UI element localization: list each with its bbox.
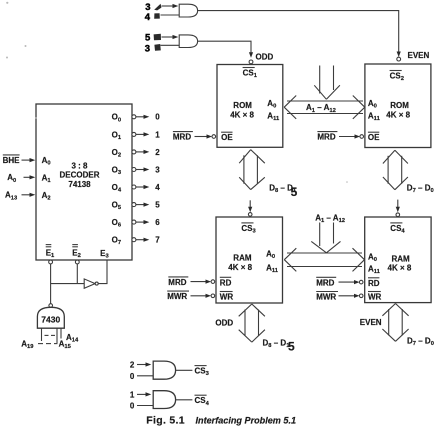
- wire G4 output: [176, 399, 193, 401]
- svg-text:4: 4: [145, 12, 151, 23]
- label 4 (G1 input, handwritten): [145, 12, 160, 23]
- wire arrow into RAM2 CS4: [396, 200, 400, 213]
- svg-text:0: 0: [130, 402, 135, 411]
- label MRD (U6): [316, 277, 336, 287]
- svg-text:4K × 8: 4K × 8: [386, 111, 410, 120]
- svg-text:7430: 7430: [41, 315, 60, 325]
- pin bubble CS2: [397, 57, 401, 61]
- label MWR (U6): [316, 292, 338, 302]
- scan specks: [6, 2, 348, 183]
- label MWR (U5): [167, 291, 189, 301]
- wire MRD arrow (U3): [195, 134, 213, 138]
- data bus D7-D0 (below RAM U6): [382, 304, 408, 342]
- svg-text:2: 2: [155, 148, 160, 157]
- label RAM 4Kx8 (U6): [388, 254, 412, 272]
- arrowhead into CS2: [397, 52, 401, 58]
- pin bubble WR (U5): [211, 294, 215, 298]
- wire O4 arrow: [136, 185, 149, 189]
- wire MWR arrow (U6): [339, 294, 360, 298]
- svg-text:RAM: RAM: [233, 254, 252, 263]
- svg-text:ODD: ODD: [215, 318, 233, 327]
- inverter U2: [84, 279, 98, 288]
- pin bubble OE (U3): [212, 135, 216, 139]
- wire O6 arrow: [136, 220, 149, 224]
- wire G1 input b: [161, 14, 180, 16]
- data bus D7-D0 (below ROM U4): [383, 150, 408, 190]
- svg-text:ODD: ODD: [256, 53, 274, 62]
- svg-text:5: 5: [155, 201, 160, 210]
- label ROM 4Kx8 (U3): [230, 101, 254, 119]
- wire address feed lines (ROM bus): [320, 66, 334, 94]
- pin label CS4: [390, 223, 405, 235]
- nand-gate 7430 output bubble: [49, 304, 53, 308]
- label MRD (U5): [168, 277, 188, 287]
- output bubble O6: [132, 220, 136, 224]
- label 5 (G2 input, handwritten): [145, 33, 161, 44]
- pin label E1 (enable): [46, 245, 55, 260]
- pin bubble E2: [75, 260, 79, 264]
- svg-text:5: 5: [288, 340, 295, 354]
- RAM U5 (ODD) box: [216, 217, 283, 303]
- and-gate G2: [179, 35, 197, 48]
- wire E2 down: [76, 264, 78, 284]
- svg-text:2: 2: [130, 361, 135, 370]
- wire O7 arrow: [136, 238, 149, 242]
- wire address feed lines (RAM bus): [320, 223, 334, 247]
- svg-text:74138: 74138: [68, 180, 91, 189]
- svg-text:MRD: MRD: [316, 278, 334, 287]
- svg-text:OE: OE: [221, 133, 233, 142]
- address bus A1-A12 (ROM row): [284, 96, 365, 119]
- svg-text:MRD: MRD: [168, 278, 186, 287]
- wire MRD arrow (U4): [339, 134, 360, 138]
- wire O5 arrow: [136, 203, 149, 207]
- svg-text:MRD: MRD: [173, 133, 191, 142]
- label CS3 (gate output): [195, 366, 210, 378]
- output bubble O2: [132, 150, 136, 154]
- svg-text:0: 0: [130, 372, 135, 381]
- and-gate G4: [153, 391, 175, 409]
- pin bubble CS1: [249, 60, 253, 64]
- wire G3 output: [176, 369, 193, 371]
- output bubble O7: [132, 238, 136, 242]
- pin label RD (U5): [220, 277, 232, 287]
- label BHE (input): [3, 155, 21, 165]
- pin bubble E1: [49, 260, 53, 264]
- wire G2 output to ODD CS1: [198, 41, 251, 53]
- dashed continuation marks (A19..A15): [38, 343, 58, 345]
- svg-text:4: 4: [155, 183, 160, 192]
- pin label CS3: [241, 223, 256, 235]
- RAM U6 (EVEN) box: [365, 217, 431, 303]
- data bus D8-D15 (below ROM U3): [239, 150, 265, 190]
- data bus D8-D15 (below RAM U5): [239, 304, 265, 342]
- ROM U4 (EVEN) box: [365, 64, 431, 148]
- svg-text:ROM: ROM: [233, 101, 252, 110]
- output bubble O5: [132, 203, 136, 207]
- svg-text:ROM: ROM: [390, 101, 409, 110]
- wire G3 input b: [137, 375, 153, 377]
- label 3 (G2 input, handwritten): [145, 43, 161, 54]
- svg-text:BHE: BHE: [3, 156, 21, 165]
- pin bubble CS3: [248, 213, 252, 217]
- svg-text:3 : 8: 3 : 8: [71, 162, 88, 171]
- wire O3 arrow: [136, 167, 149, 171]
- nand-gate 7430: [37, 307, 64, 328]
- svg-text:MWR: MWR: [316, 293, 336, 302]
- wire G2 input a with arrow: [162, 35, 179, 39]
- wire G4 input b: [137, 405, 153, 407]
- svg-text:3: 3: [145, 43, 150, 54]
- pin bubble RD (U5): [211, 280, 215, 284]
- wire inverter to E3: [98, 260, 107, 284]
- label 3:8 DECODER 74138: [59, 162, 99, 189]
- svg-text:Fig. 5.1: Fig. 5.1: [146, 414, 185, 426]
- svg-text:5: 5: [145, 33, 151, 44]
- svg-text:0: 0: [155, 113, 160, 122]
- svg-text:4K × 8: 4K × 8: [388, 264, 412, 273]
- pin label OE (U3): [221, 132, 233, 142]
- dashed continuation marks (inputs): [45, 334, 56, 336]
- svg-text:7: 7: [155, 236, 160, 245]
- output bubble O1: [132, 132, 136, 136]
- pin bubble CS4: [396, 213, 400, 217]
- wire G1 input a with arrow: [162, 4, 179, 8]
- wire arrow into RAM1 CS3: [248, 200, 252, 212]
- output bubble O3: [132, 168, 136, 172]
- label CS4 (gate output): [195, 395, 210, 407]
- label MRD (U3): [173, 132, 193, 142]
- pin bubble RD (U6): [359, 280, 363, 284]
- arrowhead V into ROM bus: [314, 85, 340, 99]
- arrowhead V into RAM bus: [311, 241, 340, 252]
- wire A13 arrow: [22, 193, 36, 197]
- wire MRD arrow (U6): [339, 280, 360, 284]
- wire G4 input a with arrow: [137, 392, 151, 396]
- address bus A1-A12 (RAM row): [284, 248, 364, 271]
- wire G2 input b: [161, 44, 180, 46]
- svg-text:RD: RD: [368, 279, 380, 288]
- svg-text:RD: RD: [220, 278, 232, 287]
- wire O0 arrow: [136, 115, 149, 119]
- wire 7430 input 2: [56, 328, 58, 343]
- pin bubble OE (U4): [360, 135, 364, 139]
- svg-text:1: 1: [130, 391, 135, 400]
- wire G1 output to EVEN CS2: [198, 11, 399, 54]
- svg-text:6: 6: [155, 218, 160, 227]
- label 3 (G1 input, handwritten): [145, 2, 161, 13]
- wire BHE arrow: [22, 158, 36, 162]
- svg-text:MRD: MRD: [317, 133, 335, 142]
- ROM U3 (ODD) box: [217, 65, 283, 148]
- pin label OE (U4): [368, 132, 380, 142]
- output bubble O0: [132, 115, 136, 119]
- and-gate G1: [179, 4, 197, 17]
- pin label CS2: [390, 71, 404, 83]
- svg-text:5: 5: [291, 185, 298, 199]
- wire E1 down: [50, 264, 52, 304]
- label RAM 4Kx8 (U5): [228, 254, 252, 272]
- svg-text:EVEN: EVEN: [360, 318, 382, 327]
- svg-text:OE: OE: [368, 133, 380, 142]
- wire O1 arrow: [136, 132, 149, 136]
- svg-text:DECODER: DECODER: [59, 171, 99, 180]
- and-gate G3: [153, 361, 175, 379]
- wire A0 arrow: [24, 175, 36, 179]
- svg-text:WR: WR: [220, 293, 234, 302]
- wire 7430 input 3: [60, 328, 62, 338]
- pin label WR (U6): [368, 292, 382, 302]
- svg-text:Interfacing Problem 5.1: Interfacing Problem 5.1: [196, 415, 297, 425]
- svg-text:4K × 8: 4K × 8: [228, 263, 252, 272]
- output bubble O4: [132, 185, 136, 189]
- wire 7430 input 1: [41, 328, 43, 341]
- svg-text:EVEN: EVEN: [408, 51, 430, 60]
- svg-text:3: 3: [155, 165, 160, 174]
- arrowhead into CS1: [249, 52, 253, 58]
- caption Fig. 5.1: [146, 414, 296, 426]
- decoder U1 74138 box: [36, 104, 132, 260]
- label ROM 4Kx8 (U4): [386, 101, 410, 119]
- wire O2 arrow: [136, 150, 149, 154]
- svg-text:RAM: RAM: [392, 254, 411, 263]
- pin label WR (U5): [220, 292, 234, 302]
- pin label RD (U6): [368, 278, 380, 288]
- svg-text:4K × 8: 4K × 8: [230, 111, 254, 120]
- svg-text:WR: WR: [368, 293, 382, 302]
- wire MRD arrow (U5): [191, 280, 212, 284]
- wire G3 input a with arrow: [137, 362, 151, 366]
- pin bubble WR (U6): [359, 294, 363, 298]
- pin label E2 (enable): [72, 245, 81, 260]
- svg-text:1: 1: [155, 130, 160, 139]
- svg-text:MWR: MWR: [167, 292, 187, 301]
- pin label CS1: [243, 68, 258, 80]
- label MRD (U4): [317, 132, 337, 142]
- wire enable junction horizontal: [51, 283, 85, 285]
- wire MWR arrow (U5): [191, 294, 212, 298]
